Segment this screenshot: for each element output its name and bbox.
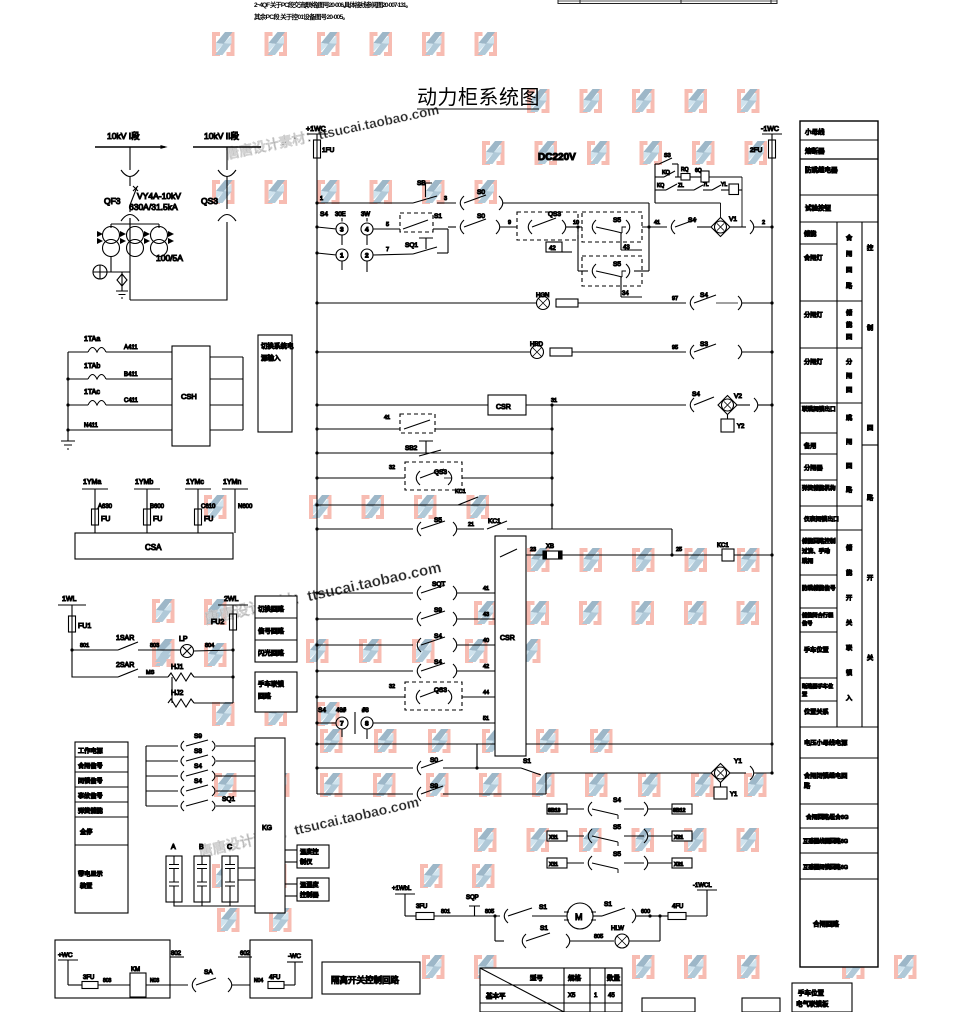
row 小母线 [800, 139, 878, 141]
svg-text:FU: FU [204, 516, 213, 523]
svg-text:分: 分 [846, 358, 852, 366]
motor M [567, 903, 593, 929]
bus 10kV I [95, 146, 166, 148]
indicator V1 [711, 218, 730, 237]
svg-text:97: 97 [672, 296, 678, 302]
svg-text:手车联锁: 手车联锁 [258, 679, 285, 688]
svg-text:A630: A630 [98, 504, 113, 510]
svg-text:过流、手动: 过流、手动 [802, 547, 830, 555]
svg-text:V1: V1 [729, 216, 737, 223]
svg-text:41: 41 [384, 415, 390, 421]
svg-text:5: 5 [386, 222, 389, 228]
svg-text:4FU: 4FU [672, 904, 683, 910]
svg-text:42: 42 [483, 664, 489, 670]
svg-text:XB: XB [546, 544, 554, 550]
watermark logo grid [154, 32, 915, 978]
svg-text:熔断器: 熔断器 [805, 146, 825, 155]
svg-text:信号: 信号 [802, 619, 812, 627]
handcart contact lower QF3 [121, 215, 139, 222]
right legend table [800, 121, 878, 967]
relay CSH [172, 346, 210, 446]
svg-text:S0: S0 [477, 213, 485, 220]
wire bus II drop [226, 147, 228, 170]
svg-text:+WC: +WC [58, 952, 73, 959]
svg-text:回: 回 [846, 387, 852, 394]
anti-pump relay network KQ [655, 153, 742, 203]
rung XB strap [500, 543, 774, 561]
capacitor B [194, 844, 210, 902]
svg-text:源输入: 源输入 [261, 353, 281, 362]
switch SA [192, 978, 196, 992]
svg-text:全停: 全停 [80, 828, 92, 836]
svg-text:40: 40 [483, 638, 489, 644]
row 防跳继电器 [800, 194, 878, 196]
svg-text:KQ: KQ [662, 170, 671, 176]
fuse 1FU [314, 140, 321, 158]
tag 42 [546, 242, 562, 252]
svg-text:S4: S4 [700, 292, 708, 299]
svg-text:#8: #8 [362, 708, 369, 714]
wire capacitor bus [174, 902, 255, 906]
bottom left aux power boxes [55, 940, 420, 998]
contact S5 upper box [576, 212, 642, 271]
note box humidity controller [285, 878, 329, 901]
svg-text:-1WCL: -1WCL [693, 883, 712, 889]
rung lamp HGN [315, 292, 773, 310]
svg-text:S9: S9 [434, 607, 442, 614]
svg-text:路: 路 [846, 282, 853, 290]
svg-text:3FU: 3FU [83, 975, 94, 981]
note box temperature controller [285, 845, 329, 868]
indicator Y1 [711, 764, 730, 783]
svg-text:LP: LP [179, 636, 188, 643]
svg-text:B600: B600 [150, 504, 165, 510]
box spare 2 [742, 998, 780, 1012]
svg-text:8: 8 [365, 721, 369, 728]
svg-text:S5: S5 [613, 851, 621, 858]
rung S9 [315, 607, 495, 626]
note box handcart interlock [255, 672, 297, 712]
relay Y2 under V2 [727, 415, 729, 420]
col B row lines [837, 301, 862, 506]
svg-text:1FU: 1FU [322, 147, 335, 154]
relay Y1 coil [720, 783, 722, 788]
svg-text:31: 31 [551, 398, 557, 404]
indicator V2 [718, 396, 737, 415]
contact SQ2 [460, 220, 464, 234]
svg-text:-WC: -WC [288, 953, 301, 960]
svg-text:关: 关 [867, 654, 873, 662]
rung S5 KC1 start [315, 517, 672, 555]
svg-text:回: 回 [846, 463, 852, 470]
contact S8 rung2 [146, 760, 178, 762]
svg-text:FU2: FU2 [211, 619, 224, 626]
svg-text:分闸灯: 分闸灯 [804, 358, 823, 366]
svg-text:隔离开关控制回路: 隔离开关控制回路 [331, 975, 400, 985]
contact S9 rung1 [146, 745, 178, 747]
svg-text:1TAc: 1TAc [84, 389, 100, 396]
svg-text:2SAR: 2SAR [116, 662, 134, 669]
wire 2SAR branch [72, 650, 118, 677]
svg-text:S5: S5 [613, 217, 621, 224]
rung S4b [315, 659, 495, 678]
svg-text:DC220V: DC220V [538, 152, 576, 163]
svg-text:S4: S4 [688, 217, 696, 224]
svg-text:805: 805 [594, 934, 603, 940]
contact S5 lower box [578, 256, 649, 297]
svg-text:CSR: CSR [496, 404, 511, 411]
svg-text:S9: S9 [194, 733, 202, 740]
svg-text:1WL: 1WL [62, 596, 77, 603]
wire S5 link vertical [577, 227, 579, 271]
svg-text:10kV II段: 10kV II段 [204, 131, 239, 141]
svg-text:能: 能 [846, 321, 852, 329]
svg-text:2: 2 [365, 253, 369, 260]
fuse FU c [195, 509, 202, 525]
svg-text:C411: C411 [124, 398, 139, 404]
breaker QF3 [130, 186, 138, 205]
ground CT [61, 441, 75, 449]
svg-text:43: 43 [483, 612, 489, 618]
current transformer TA group [97, 224, 174, 257]
relay CSA [75, 533, 233, 559]
rung trip S0 S1 Y1 [315, 757, 773, 799]
node -WC [287, 961, 303, 963]
wire from terminal 4 [373, 228, 401, 230]
PT section [75, 479, 253, 559]
contact SQ [460, 196, 464, 210]
svg-text:VY4A-10kV: VY4A-10kV [137, 191, 181, 201]
svg-text:储: 储 [846, 544, 852, 552]
svg-text:S4: S4 [194, 778, 202, 785]
svg-text:RQ: RQ [681, 167, 689, 173]
terminal 3 [317, 227, 337, 229]
svg-text:2: 2 [762, 220, 765, 226]
svg-text:30E: 30E [335, 212, 346, 218]
terminal 1 [317, 253, 337, 255]
svg-text:805: 805 [485, 909, 494, 915]
svg-text:FU1: FU1 [78, 623, 91, 630]
control rail -1WC [750, 126, 782, 773]
rung close control [315, 180, 649, 271]
note box protection input [258, 335, 294, 432]
svg-text:4: 4 [365, 227, 369, 234]
terminal 4 [361, 223, 373, 235]
svg-text:B: B [199, 844, 204, 851]
terminal strap rung 2 [547, 824, 692, 846]
control rail +1WC [306, 126, 335, 794]
contact S4 rung3 [146, 775, 178, 777]
wire CT drop [129, 218, 131, 300]
svg-text:防跳继电器: 防跳继电器 [805, 165, 838, 174]
svg-text:手车位置: 手车位置 [804, 646, 829, 654]
svg-text:1YMa: 1YMa [83, 479, 101, 486]
svg-text:S4: S4 [318, 707, 326, 714]
svg-text:合闸闭锁继电回: 合闸闭锁继电回 [804, 772, 847, 780]
svg-text:+1WC: +1WC [306, 126, 326, 133]
svg-text:S9: S9 [430, 783, 438, 790]
svg-text:2FU: 2FU [750, 147, 763, 154]
svg-text:3: 3 [340, 227, 344, 234]
svg-text:制: 制 [867, 324, 873, 332]
svg-text:装置: 装置 [80, 882, 92, 890]
signal lamp section [58, 596, 248, 707]
svg-text:S1: S1 [540, 925, 548, 932]
svg-text:N04: N04 [254, 978, 263, 984]
rung continues to V1 [642, 177, 774, 237]
svg-text:SA: SA [204, 969, 213, 976]
svg-text:95: 95 [672, 345, 678, 351]
heater HJ2 [171, 677, 173, 703]
svg-text:回: 回 [846, 334, 852, 341]
svg-text:互感器闭锁回路6G: 互感器闭锁回路6G [803, 863, 848, 871]
fuse FU1 [69, 616, 76, 632]
svg-text:602: 602 [240, 951, 251, 957]
fuse 2FU [769, 140, 776, 158]
svg-text:SB2: SB2 [405, 445, 418, 452]
svg-text:802: 802 [171, 951, 182, 957]
svg-text:SQ1: SQ1 [405, 242, 418, 249]
svg-text:路: 路 [846, 486, 853, 494]
svg-text:1TAa: 1TAa [84, 336, 100, 343]
svg-text:1YMb: 1YMb [135, 479, 153, 486]
surge diamond [117, 272, 127, 286]
wire to QS3 branch [130, 222, 227, 300]
svg-text:闭锁信号: 闭锁信号 [78, 777, 103, 785]
svg-text:数量: 数量 [607, 973, 621, 982]
box spare 1 [642, 998, 695, 1012]
svg-text:储能回路控制: 储能回路控制 [802, 537, 836, 545]
svg-text:回: 回 [867, 425, 873, 432]
svg-text:1: 1 [340, 253, 344, 260]
svg-text:SQP: SQP [466, 895, 479, 901]
svg-text:储: 储 [846, 309, 852, 317]
rung selector circles [315, 211, 517, 272]
svg-text:温湿度: 温湿度 [300, 881, 319, 889]
svg-text:V2: V2 [734, 393, 742, 400]
svg-text:A: A [171, 844, 176, 851]
contact SQ1 rung5 [146, 805, 178, 807]
handcart contact upper QS3 [218, 170, 236, 177]
svg-text:闸: 闸 [846, 372, 852, 380]
svg-text:X31: X31 [674, 835, 683, 841]
terminal strap rung 1 [547, 797, 692, 819]
svg-text:工作电源: 工作电源 [78, 747, 103, 755]
svg-text:联: 联 [846, 644, 852, 652]
svg-text:路: 路 [867, 494, 874, 502]
svg-text:25: 25 [676, 547, 682, 553]
svg-text:控: 控 [867, 244, 873, 252]
svg-text:SQ1: SQ1 [222, 796, 235, 803]
svg-text:互感器线圈回路6G: 互感器线圈回路6G [803, 837, 848, 845]
svg-text:路: 路 [804, 782, 811, 790]
svg-text:储能闭合行程: 储能闭合行程 [802, 611, 833, 619]
fuse FU b [144, 509, 151, 525]
rung contact QS3 aux2 [315, 462, 553, 495]
svg-text:803: 803 [150, 643, 159, 649]
svg-text:S5: S5 [613, 261, 621, 268]
svg-text:能: 能 [846, 569, 852, 577]
svg-text:QS3: QS3 [434, 469, 447, 476]
svg-text:规格: 规格 [568, 973, 582, 982]
svg-text:S1: S1 [539, 904, 547, 911]
svg-text:控制器: 控制器 [300, 891, 319, 899]
rung button SB2 [315, 441, 553, 456]
node -1WCL [706, 890, 708, 916]
contact QS3 aux box [517, 211, 582, 252]
capacitor A [166, 844, 182, 902]
svg-text:S4: S4 [434, 659, 442, 666]
svg-text:位置关系: 位置关系 [804, 708, 829, 716]
svg-text:QF3: QF3 [104, 196, 121, 206]
svg-text:弹簧储能机构: 弹簧储能机构 [802, 484, 836, 492]
svg-text:CSR: CSR [500, 635, 515, 642]
svg-text:合闸灯: 合闸灯 [804, 254, 823, 262]
rung selector terminals 7 8 [315, 707, 495, 739]
svg-text:45: 45 [608, 993, 615, 999]
svg-text:合闸信号: 合闸信号 [78, 762, 103, 770]
row 熔断器 [800, 158, 878, 160]
svg-text:FU: FU [153, 516, 162, 523]
svg-text:3FU: 3FU [416, 904, 427, 910]
svg-text:切换系统电: 切换系统电 [261, 341, 294, 350]
svg-text:7: 7 [386, 247, 389, 253]
svg-text:21: 21 [468, 522, 474, 528]
svg-text:600: 600 [641, 909, 650, 915]
arrester branch wire [107, 271, 130, 273]
svg-text:回路: 回路 [258, 691, 272, 700]
svg-text:8B12: 8B12 [673, 808, 686, 814]
svg-text:804: 804 [205, 643, 214, 649]
svg-text:制仪: 制仪 [300, 858, 312, 866]
rung lamp HRD [315, 341, 773, 359]
svg-text:备用: 备用 [804, 442, 816, 450]
svg-text:QS3: QS3 [201, 196, 218, 206]
svg-text:1YMc: 1YMc [186, 479, 204, 486]
svg-text:分闸器: 分闸器 [804, 464, 823, 472]
handcart contact lower QS3 [218, 215, 236, 222]
svg-text:C610: C610 [201, 504, 216, 510]
three column section [836, 222, 838, 727]
spec table [480, 968, 622, 1012]
svg-text:分闸灯: 分闸灯 [804, 311, 823, 319]
svg-text:手车位置: 手车位置 [798, 988, 825, 997]
top table remnant [558, 0, 777, 4]
svg-text:防跳储能信号: 防跳储能信号 [802, 584, 836, 592]
lamp branch [494, 916, 496, 941]
rung contact KC1 [315, 497, 553, 507]
svg-text:51: 51 [483, 716, 489, 722]
relay KG [255, 738, 285, 913]
svg-text:S4: S4 [194, 763, 202, 770]
svg-text:其余PC段 关于控01设备图号20-005。: 其余PC段 关于控01设备图号20-005。 [254, 12, 349, 21]
box fuse aux [250, 940, 312, 998]
svg-text:1TAb: 1TAb [84, 363, 100, 370]
svg-text:YL: YL [721, 182, 727, 188]
svg-text:7: 7 [340, 721, 344, 728]
svg-text:N03: N03 [150, 978, 159, 984]
svg-text:闪光回路: 闪光回路 [258, 648, 285, 657]
fuse FU2 [230, 614, 237, 630]
svg-text:41: 41 [654, 220, 660, 226]
svg-text:3: 3 [444, 196, 447, 202]
svg-text:S0: S0 [477, 189, 485, 196]
svg-text:CSH: CSH [181, 392, 197, 401]
signal table [75, 742, 128, 913]
svg-text:3W: 3W [361, 212, 370, 218]
row 试验按钮 [800, 221, 878, 223]
svg-text:KC1: KC1 [455, 489, 466, 495]
svg-text:S4: S4 [613, 797, 621, 804]
svg-text:电气联锁板: 电气联锁板 [796, 999, 829, 1008]
note box isolation control [322, 962, 420, 994]
svg-text:Y2: Y2 [737, 424, 745, 430]
svg-text:4FU: 4FU [269, 975, 280, 981]
svg-text:跳: 跳 [846, 414, 852, 422]
ground [116, 286, 128, 298]
svg-text:信号回路: 信号回路 [258, 626, 285, 635]
svg-text:801: 801 [441, 909, 450, 915]
svg-text:C: C [227, 844, 232, 851]
svg-text:开: 开 [867, 575, 873, 582]
note box handcart position [792, 983, 852, 1012]
tag 43 [620, 233, 622, 250]
svg-text:CSA: CSA [145, 543, 162, 552]
svg-text:开: 开 [846, 595, 852, 602]
svg-text:KC1: KC1 [717, 543, 729, 549]
svg-text:S1: S1 [604, 901, 612, 908]
contact S1 remote box [400, 213, 433, 232]
svg-text:QS3: QS3 [434, 687, 447, 694]
rung SQT [315, 581, 495, 600]
arrester [93, 265, 107, 279]
svg-text:M: M [575, 912, 583, 922]
svg-text:KM: KM [131, 967, 140, 973]
contact S4 rung4 [146, 790, 178, 792]
svg-text:801: 801 [80, 643, 89, 649]
rung QS3 aux3 [315, 682, 495, 710]
rung relay CSR coil [315, 391, 773, 432]
svg-text:HJ2: HJ2 [171, 690, 184, 697]
fuse FU a [92, 509, 99, 525]
terminal 2 [361, 249, 373, 261]
rung lower link [315, 742, 773, 768]
svg-text:41: 41 [483, 586, 489, 592]
svg-text:S5: S5 [613, 824, 621, 831]
svg-text:带电显示: 带电显示 [78, 870, 103, 878]
handcart contact upper QF3 [121, 170, 139, 177]
contact bank to KG [146, 733, 255, 811]
svg-text:2WL: 2WL [224, 596, 239, 603]
relay CSR main box [495, 536, 526, 756]
svg-text:KG: KG [262, 825, 272, 832]
svg-text:KQ: KQ [657, 183, 664, 189]
svg-text:QS3: QS3 [548, 211, 561, 218]
svg-text:型号: 型号 [530, 973, 544, 982]
wire V1 to KQ net [721, 177, 743, 227]
svg-text:S3: S3 [664, 153, 671, 159]
svg-text:HJ1: HJ1 [171, 664, 184, 671]
wire bus I drop [129, 147, 131, 170]
rung S9 lower [317, 768, 546, 801]
svg-text:跳闸: 跳闸 [802, 557, 814, 565]
svg-text:A411: A411 [124, 345, 138, 351]
svg-text:合闸回路组合6G: 合闸回路组合6G [806, 813, 849, 821]
svg-text:关: 关 [846, 619, 852, 627]
svg-text:试验按钮: 试验按钮 [805, 203, 832, 212]
capacitor C [222, 844, 238, 902]
svg-text:9: 9 [508, 220, 511, 226]
